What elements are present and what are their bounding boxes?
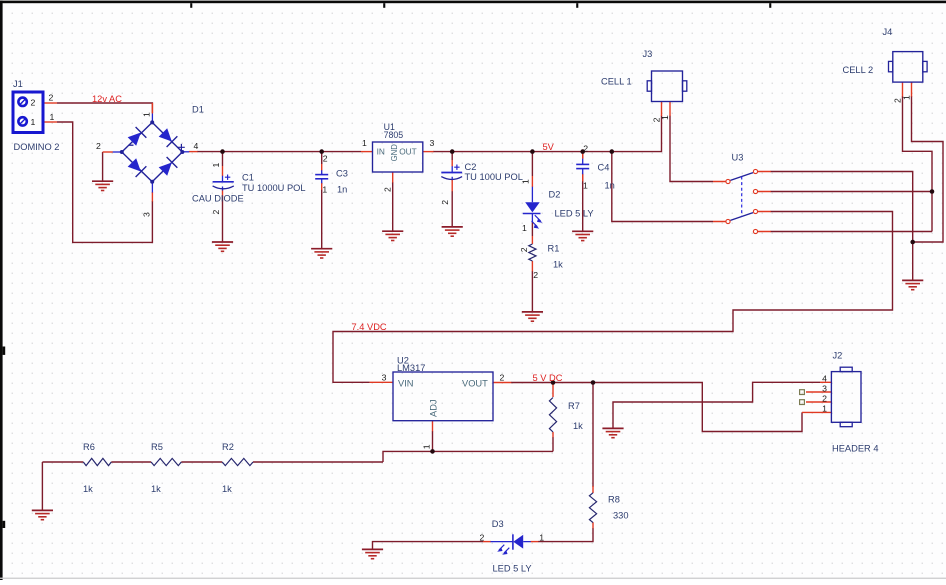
ground R1	[522, 312, 543, 321]
ground C3	[311, 249, 332, 258]
blue pin bridge bottom	[151, 182, 153, 193]
border tick left y=348	[3, 347, 6, 355]
svg-text:1k: 1k	[151, 484, 161, 494]
wire J2 pin4 to ground	[613, 382, 820, 428]
ground R6	[32, 510, 53, 519]
LED D3 body	[497, 534, 523, 555]
wire ADJ net horizontal	[42, 451, 553, 510]
resistor R7 body	[549, 398, 556, 433]
svg-text:1n: 1n	[337, 184, 347, 194]
junction node (452.2,151.6)	[450, 149, 455, 154]
pin stub R7 top	[552, 383, 554, 397]
svg-text:2: 2	[211, 210, 221, 215]
regulator U2 LM317 box	[393, 372, 493, 421]
pin stub R1 top	[531, 236, 533, 244]
pin stub U2 VOUT	[493, 382, 511, 384]
svg-text:4: 4	[194, 141, 199, 151]
junction node (593,382.5)	[591, 380, 596, 385]
svg-text:3: 3	[142, 212, 152, 217]
pin stub U1 GND	[392, 172, 394, 183]
svg-text:2: 2	[49, 93, 54, 103]
pin stub U2 ADJ	[432, 421, 434, 432]
bridge diode bottom-left	[127, 157, 147, 177]
pin stub C1 top	[222, 166, 224, 176]
svg-text:D1: D1	[192, 105, 204, 115]
pin stub R8 top	[592, 486, 594, 493]
junction node (432.5,451.4)	[430, 449, 435, 454]
bridge diode top-right	[158, 127, 178, 147]
blue pin bridge top	[151, 114, 153, 124]
svg-text:2: 2	[323, 153, 328, 163]
svg-text:2: 2	[480, 532, 485, 542]
pin stub C3 top	[321, 164, 323, 171]
switch U3 (DPDT)	[726, 169, 758, 233]
svg-text:2: 2	[31, 97, 36, 107]
pin stub D2 anode	[531, 176, 533, 187]
svg-text:2: 2	[382, 187, 392, 192]
border tick x=770	[769, 3, 771, 8]
pin stub bridge bottom	[151, 192, 153, 202]
svg-text:R1: R1	[548, 244, 560, 254]
junction node (912.7,242)	[910, 240, 915, 245]
wire U3 throw2 to J4 pin2 node	[771, 191, 933, 193]
border tick x=577	[576, 3, 578, 8]
svg-text:7805: 7805	[384, 130, 404, 140]
svg-text:C1: C1	[242, 173, 254, 183]
svg-text:1: 1	[660, 115, 670, 120]
blue pin bridge right	[182, 151, 189, 153]
pin stub C1 bottom	[222, 190, 224, 197]
pin stub D3 anode side	[531, 541, 539, 543]
wire J4 pin1 to ground node	[912, 96, 944, 242]
svg-text:J2: J2	[833, 351, 843, 361]
junction node (321.7,151.6)	[319, 149, 324, 154]
svg-text:VOUT: VOUT	[462, 378, 488, 388]
sheet border left	[0, 1, 3, 580]
svg-text:2: 2	[533, 270, 538, 280]
svg-text:1k: 1k	[553, 260, 563, 270]
svg-text:R7: R7	[568, 401, 580, 411]
svg-text:2: 2	[583, 143, 588, 153]
pin stub J2 pin1	[802, 411, 831, 413]
wire U3 throw4	[771, 231, 933, 233]
svg-text:D3: D3	[492, 519, 504, 529]
resistor R5 body	[151, 458, 181, 465]
svg-text:CELL 2: CELL 2	[843, 65, 874, 75]
bridge diode bottom-right	[158, 157, 178, 177]
svg-text:1: 1	[520, 179, 530, 184]
blue pin C2	[451, 166, 453, 180]
svg-text:VIN: VIN	[398, 378, 414, 388]
blue pin D3	[491, 541, 531, 543]
wire C3 tap	[321, 152, 323, 249]
wire J4 pin2 down	[903, 96, 933, 232]
blue pin C3	[321, 170, 323, 183]
svg-text:IN: IN	[377, 147, 385, 157]
svg-text:C4: C4	[598, 162, 610, 172]
svg-text:J1: J1	[13, 79, 23, 89]
wire U2 ADJ pin down	[432, 431, 434, 451]
ground bridge left	[92, 181, 113, 190]
capacitor C1 body (polarized)	[213, 175, 234, 189]
pin stub bridge left	[103, 151, 113, 153]
wire U2 VOUT 5VDC rail to J2 pin1	[511, 383, 802, 432]
capacitor C2 body (polarized)	[441, 165, 462, 180]
pin stub C4 bottom	[582, 174, 584, 182]
svg-text:R2: R2	[222, 442, 234, 452]
svg-text:330: 330	[613, 511, 629, 521]
pin stub R7 bottom	[552, 432, 554, 437]
pin stub J2 pin2	[806, 401, 831, 403]
pin stub U2 VIN	[370, 381, 393, 383]
J2 pin2 open terminal square	[800, 400, 805, 405]
pin stub U3 throws	[758, 172, 771, 232]
wire C2 tap	[451, 152, 453, 227]
blue pin C4	[582, 159, 584, 175]
wire U1 GND to ground	[392, 182, 394, 231]
svg-text:CELL 1: CELL 1	[601, 77, 632, 87]
pin stub bridge right	[189, 151, 198, 153]
svg-text:1: 1	[822, 403, 827, 413]
pin stub J2 pin3	[806, 391, 831, 393]
svg-text:U3: U3	[732, 153, 744, 163]
svg-text:1: 1	[211, 163, 221, 168]
ground U1	[382, 231, 403, 240]
junction node (222.5,151.6)	[220, 149, 225, 154]
junction node (553,382.5)	[551, 380, 556, 385]
svg-text:5V: 5V	[543, 142, 555, 152]
wire R7 bottom to ADJ net	[552, 437, 554, 451]
bridge diode top-left	[127, 127, 147, 147]
svg-text:1k: 1k	[573, 421, 583, 431]
sheet edge bottom	[0, 578, 946, 579]
svg-text:ADJ: ADJ	[429, 399, 439, 417]
svg-text:1: 1	[50, 112, 55, 122]
pin stub J2 pin4	[820, 381, 831, 383]
wire R8 to D3	[538, 528, 593, 542]
svg-text:J3: J3	[643, 49, 653, 59]
wire 5V to D2 anode	[531, 152, 533, 176]
pin stub J1 pin1	[44, 121, 58, 123]
wire bridge left to ground	[102, 152, 104, 181]
voltage regulator U1 7805 box	[373, 142, 423, 172]
connector J2 HEADER 4 body	[831, 367, 861, 426]
connector J3 CELL 1 body	[647, 71, 687, 102]
junction node (611.8,151.6)	[610, 149, 615, 154]
ground C2	[442, 227, 463, 236]
svg-text:R8: R8	[608, 495, 620, 505]
pin stub C4 top	[582, 153, 584, 159]
ground C1	[212, 242, 233, 251]
sheet border top	[0, 1, 946, 4]
svg-text:HEADER 4: HEADER 4	[832, 444, 879, 454]
blue pin D2	[531, 187, 533, 223]
svg-text:1: 1	[522, 223, 527, 233]
junction node (932,191.5)	[930, 189, 935, 194]
junction node (532.4,151.6)	[530, 149, 535, 154]
pin stub J1 pin2	[44, 102, 58, 104]
svg-text:12v AC: 12v AC	[92, 94, 122, 104]
pin stub C2 top	[451, 160, 453, 167]
wire U3 throw3 to 7.4VDC to U2 VIN	[333, 212, 893, 383]
border tick x=191	[190, 3, 192, 8]
svg-text:1: 1	[362, 138, 367, 148]
wire 5V to switch pole B	[612, 152, 713, 222]
svg-text:C3: C3	[336, 168, 348, 178]
ground C4	[572, 231, 593, 240]
connector J1 (DOMINO 2)	[13, 92, 43, 133]
svg-text:3: 3	[382, 373, 387, 383]
svg-text:TU 100U POL: TU 100U POL	[465, 172, 523, 182]
pin stub J3 pins	[662, 102, 671, 117]
pin stub C2 bottom	[451, 180, 453, 192]
svg-text:LED 5 LY: LED 5 LY	[493, 563, 532, 573]
wire J3 pin1 to switch pole A	[670, 116, 713, 182]
wire J1 pin1 to bridge bottom	[57, 122, 152, 242]
pin stub U1 OUT	[423, 151, 434, 153]
svg-text:4: 4	[822, 373, 827, 383]
svg-text:TU 1000U POL: TU 1000U POL	[242, 183, 306, 193]
pin stub C3 bottom	[321, 183, 323, 190]
svg-text:2: 2	[519, 247, 529, 252]
pin stub U1 IN	[361, 151, 373, 153]
capacitor C4 body	[576, 164, 589, 168]
svg-text:3: 3	[822, 383, 827, 393]
wire J1 pin2 to bridge top (12v AC net)	[57, 103, 152, 113]
resistor R8 body	[589, 493, 596, 523]
wire bridge right to U1 IN	[197, 151, 361, 153]
pin stub U3 poles	[713, 182, 726, 222]
svg-text:1k: 1k	[83, 484, 93, 494]
wire C1 tap	[222, 152, 224, 242]
svg-text:1n: 1n	[605, 180, 615, 190]
svg-text:2: 2	[96, 141, 101, 151]
ground J4 node	[902, 280, 923, 289]
wire R1 to ground	[531, 271, 533, 312]
svg-text:1: 1	[539, 532, 544, 542]
junction node (582.7,151.6)	[580, 149, 585, 154]
ground D3	[362, 549, 383, 558]
svg-text:LED 5 LY: LED 5 LY	[555, 209, 594, 219]
svg-text:1: 1	[322, 184, 327, 194]
border tick x=384	[383, 3, 385, 8]
blue pin bridge left	[113, 151, 122, 153]
svg-text:DOMINO 2: DOMINO 2	[14, 142, 60, 152]
pin stub R1 bottom	[531, 261, 533, 271]
svg-text:2: 2	[440, 200, 450, 205]
resistor R6 body	[83, 458, 111, 465]
wire R6-R5-R2 series connections	[42, 461, 383, 463]
connector J4 CELL 2 body	[889, 52, 928, 83]
svg-text:3: 3	[430, 138, 435, 148]
pin stub bridge top	[151, 103, 153, 114]
svg-text:1: 1	[583, 180, 588, 190]
svg-text:C2: C2	[465, 162, 477, 172]
svg-text:1: 1	[142, 112, 152, 117]
resistor R1 body	[529, 244, 536, 261]
svg-text:LM317: LM317	[397, 363, 425, 373]
svg-text:1: 1	[902, 95, 912, 100]
svg-text:J4: J4	[883, 27, 893, 37]
J2 pin3 open terminal square	[800, 390, 805, 395]
wire U3 throw1 to ground node	[771, 172, 913, 281]
bridge minus sign	[128, 144, 133, 146]
blue pin C1	[222, 176, 224, 191]
wire 5VDC to R8	[592, 383, 594, 488]
svg-text:OUT: OUT	[399, 147, 417, 157]
wire D3 to ground	[373, 542, 484, 550]
svg-text:CAU DIODE: CAU DIODE	[192, 194, 244, 204]
pin stub D3 cathode side	[483, 541, 491, 543]
svg-text:2: 2	[822, 393, 827, 403]
LED D2 body	[523, 202, 543, 228]
ground J2	[602, 428, 623, 437]
wire C4 tap	[582, 153, 584, 231]
svg-text:R6: R6	[83, 442, 95, 452]
svg-text:1k: 1k	[222, 484, 232, 494]
svg-text:1: 1	[31, 117, 36, 127]
svg-text:GND: GND	[390, 144, 399, 162]
border tick left y=523	[3, 521, 6, 528]
svg-text:1: 1	[421, 444, 431, 449]
bridge plus sign	[178, 144, 185, 151]
capacitor C3 body	[315, 175, 328, 179]
pin stub J4 pins	[903, 82, 912, 97]
svg-text:5 V DC: 5 V DC	[533, 373, 563, 383]
svg-text:D2: D2	[549, 190, 561, 200]
svg-text:2: 2	[500, 373, 505, 383]
wire D2 cathode to R1	[531, 222, 533, 236]
svg-text:7.4 VDC: 7.4 VDC	[352, 322, 387, 332]
wire U1 OUT to J3 pin2 (5V rail)	[433, 116, 662, 152]
bridge rectifier D1 body	[120, 120, 185, 183]
pin stub R8 bottom	[592, 522, 594, 528]
resistor R2 body	[222, 458, 253, 465]
svg-text:R5: R5	[151, 442, 163, 452]
